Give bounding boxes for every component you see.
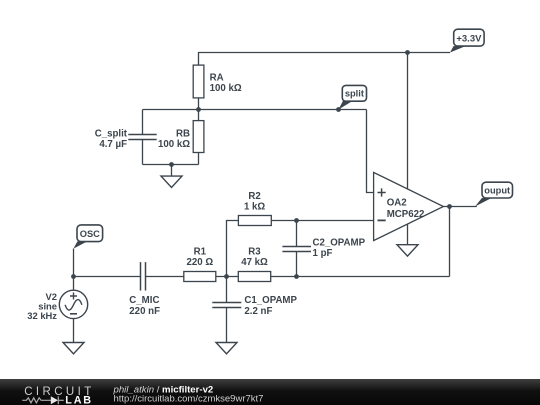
svg-text:R3: R3 (248, 246, 261, 257)
wire V2 bottom to ground (73, 319, 75, 343)
footer logo diode triangle (51, 396, 58, 404)
wire inverting input row from R2 right to op-amp (271, 220, 374, 222)
wire R3 right along feedback bottom (271, 276, 450, 278)
svg-text:C_MIC: C_MIC (129, 295, 159, 306)
wire +3.3V rail down to op-amp power pin (407, 53, 409, 190)
wire OSC flag stem down to V2 top (73, 249, 75, 291)
svg-text:split: split (345, 89, 364, 99)
svg-text:2.2 nF: 2.2 nF (244, 306, 272, 317)
footer CircuitLab logo text (24, 386, 94, 405)
node junction C2 bottom feedback (294, 274, 299, 279)
voltage source V2 plus marker (70, 293, 77, 300)
ground under op-amp (397, 245, 418, 256)
svg-text:RA: RA (210, 73, 224, 84)
label C2_OPAMP value (313, 237, 366, 258)
capacitor C1_OPAMP (212, 303, 241, 308)
op-amp minus input marker (378, 219, 386, 221)
net flag OSC (74, 225, 103, 249)
capacitor C_split (128, 135, 156, 140)
svg-text:1 pF: 1 pF (313, 248, 333, 259)
op-amp OA2 MCP622 triangle body (374, 172, 444, 240)
wire bottom of C_split / RB loop (143, 164, 199, 166)
wire RB bottom lead (198, 153, 200, 165)
node junction RA RB split (196, 107, 201, 112)
wire op-amp ground stem (407, 224, 409, 245)
label RA value (210, 73, 242, 95)
wire C1_OPAMP bottom lead to ground (226, 308, 228, 343)
node junction ground of split loop (169, 162, 174, 167)
svg-text:100 kΩ: 100 kΩ (210, 83, 242, 94)
op-amp plus input marker (378, 188, 386, 196)
svg-text:+3.3V: +3.3V (456, 34, 482, 45)
svg-text:MCP622: MCP622 (387, 209, 425, 220)
svg-text:OA2: OA2 (387, 198, 407, 209)
wire top rail from RA top to +3.3V pointer (199, 53, 451, 66)
net flag ouput (475, 182, 513, 206)
svg-text:http://circuitlab.com/czmkse9w: http://circuitlab.com/czmkse9wr7kt7 (114, 394, 264, 405)
wire op-amp output to ouput flag pointer (443, 206, 476, 208)
capacitor C_MIC (141, 262, 146, 290)
label R2 value (244, 191, 265, 212)
wire R1 right to R3 left through node (216, 276, 239, 278)
label C_MIC value (129, 295, 160, 317)
label C_split value (95, 128, 128, 150)
voltage source V2 circle (59, 290, 87, 318)
svg-text:R1: R1 (194, 246, 207, 257)
wire split row (143, 109, 367, 111)
label R3 value (241, 246, 268, 268)
ground under split loop (161, 176, 182, 187)
node junction R1 R3 C1 (224, 274, 229, 279)
resistor R2 (238, 216, 271, 226)
svg-text:220 Ω: 220 Ω (186, 257, 213, 268)
node junction split flag (336, 107, 341, 112)
wire RB top lead (198, 110, 200, 121)
svg-text:32 kHz: 32 kHz (27, 310, 57, 321)
resistor R3 (238, 272, 270, 282)
label C1_OPAMP value (244, 295, 297, 317)
wire R2 left lead and vertical to C1 (227, 221, 239, 303)
label OA2 MCP622 (387, 198, 425, 220)
svg-text:C1_OPAMP: C1_OPAMP (244, 295, 297, 306)
wire C2_OPAMP top lead (296, 221, 298, 247)
wire C_split top lead (142, 110, 144, 135)
node junction C2 top inverting row (294, 218, 299, 223)
wire ground stem at split loop (171, 165, 173, 177)
node junction top rail to op-amp power (405, 50, 410, 55)
net flag +3.3V (450, 29, 484, 52)
label RB value (158, 128, 190, 150)
voltage source V2 minus marker (70, 313, 77, 315)
wire split row down to op-amp non-inverting input (367, 110, 375, 193)
label V2 value (27, 291, 57, 321)
wire C_MIC right lead to R1 (146, 276, 184, 278)
wire feedback vertical up to output node (449, 207, 451, 277)
svg-text:4.7 µF: 4.7 µF (99, 139, 127, 150)
svg-text:ouput: ouput (484, 185, 510, 195)
svg-text:R2: R2 (248, 191, 260, 202)
resistor RB (193, 121, 204, 153)
svg-text:220 nF: 220 nF (129, 306, 160, 317)
svg-text:LAB: LAB (65, 394, 93, 405)
node junction output feedback (447, 204, 452, 209)
resistor RA (193, 65, 204, 98)
net flag split (339, 85, 367, 109)
svg-text:OSC: OSC (80, 229, 100, 239)
ground under V2 (63, 343, 84, 354)
label R1 value (186, 246, 213, 268)
node junction V2 OSC (71, 274, 76, 279)
wire C2_OPAMP bottom lead (296, 252, 298, 277)
svg-text:47 kΩ: 47 kΩ (241, 257, 268, 268)
capacitor C2_OPAMP (282, 247, 311, 252)
voltage source V2 sine symbol (65, 300, 82, 311)
wire RA bottom lead (198, 98, 200, 110)
svg-text:C_split: C_split (95, 128, 128, 139)
resistor R1 (184, 272, 216, 282)
ground under C1_OPAMP (216, 343, 237, 354)
svg-text:100 kΩ: 100 kΩ (158, 139, 190, 150)
wire V2 to C_MIC left plate (74, 276, 141, 278)
svg-text:RB: RB (176, 128, 190, 139)
wire C_split bottom lead (142, 140, 144, 165)
footer logo resistor and diode glyph (22, 396, 64, 404)
svg-text:1 kΩ: 1 kΩ (244, 201, 265, 212)
svg-text:C2_OPAMP: C2_OPAMP (313, 237, 366, 248)
